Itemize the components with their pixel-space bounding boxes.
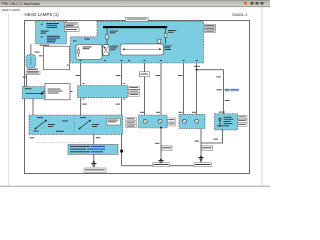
joint connector tap label	[217, 88, 240, 92]
svg-text:SD801-1: SD801-1	[232, 12, 247, 17]
ground distribution callout	[68, 145, 118, 155]
head lamp relay (small)	[103, 45, 119, 56]
fuse drop right (head lamp hi)	[158, 28, 177, 44]
auto light module box	[22, 87, 46, 99]
ground G05 label	[84, 168, 106, 172]
wire SJB to headlamp RH low	[178, 63, 183, 114]
bus bar	[103, 26, 167, 28]
SJB bottom pin specks	[80, 59, 198, 62]
wire cluster to switch pin2	[116, 98, 122, 115]
node E11 label	[35, 52, 40, 53]
fuse callout box (hot at all times)	[36, 22, 67, 45]
window bottom edge	[0, 185, 270, 187]
lighting switch labels right	[126, 117, 136, 127]
diagram sheet frame	[25, 21, 250, 174]
step pin specks	[73, 39, 90, 42]
wire battery to headlamp switch feed	[23, 74, 27, 86]
joint connector box	[43, 84, 73, 100]
junction box name label	[126, 17, 149, 21]
wire SJB to headlamp RH high + branch	[194, 63, 224, 114]
cluster pin number specks	[83, 83, 126, 99]
head lamp LH pin labels	[140, 112, 196, 113]
right component box	[215, 112, 238, 130]
connector text E/R-A	[39, 45, 49, 57]
wire label 0.3B left	[30, 137, 35, 138]
svg-text:HEAD LAMPS: HEAD LAMPS	[2, 8, 21, 12]
wire fusebox to battery	[30, 44, 32, 55]
battery	[26, 55, 36, 68]
right component labels	[238, 115, 248, 126]
window buttons	[244, 2, 264, 5]
smart junction box (dashed)	[71, 21, 204, 63]
legend white box	[44, 46, 70, 69]
head lamp LH name labels	[168, 118, 176, 126]
wire RH to ground	[195, 128, 213, 165]
ground tap wire from switch pin	[120, 134, 123, 165]
relay coil right text	[165, 46, 172, 51]
ground G17	[158, 161, 163, 164]
wire branch to right component	[216, 70, 229, 115]
wire right component drop	[201, 129, 223, 143]
ground run horizontal	[122, 165, 201, 167]
SJB connector labels I/P	[204, 24, 216, 32]
head lamp LH	[139, 115, 168, 128]
ground G17 label	[153, 163, 170, 167]
dotted option line under switch	[36, 142, 89, 144]
instrument cluster box	[78, 86, 128, 98]
ground right	[198, 158, 203, 161]
head lamp RH	[179, 114, 205, 128]
svg-text:PRE 1.9B-2.7) / head lamps: PRE 1.9B-2.7) / head lamps	[2, 2, 41, 6]
cluster connector labels	[129, 86, 140, 96]
wire autolight to switch	[32, 99, 34, 115]
fuse label 7.5A	[65, 28, 80, 32]
wire switch to ground G05	[93, 134, 101, 162]
ground right label	[194, 163, 212, 167]
wire SJB to cluster pin2	[116, 63, 122, 86]
lighting switch box	[29, 115, 123, 134]
wire SJB to headlamp LH low	[139, 63, 144, 115]
wire LH to ground G17	[155, 127, 172, 161]
fuse drop left (head lamp lo)	[106, 28, 118, 44]
wire SJB to headlamp LH high	[156, 63, 161, 115]
ground G05	[91, 163, 96, 166]
wire cluster to switch pin1	[81, 98, 87, 115]
battery label boxes	[26, 68, 40, 74]
inline connector on LH low wire	[139, 72, 149, 77]
relay contacts (wide)	[120, 44, 163, 55]
svg-text:HEAD LAMPS (1): HEAD LAMPS (1)	[25, 12, 60, 17]
window title bar	[0, 0, 270, 7]
wire SJB to cluster pin1	[75, 63, 80, 86]
right panel divider	[261, 7, 263, 186]
left panel divider	[8, 14, 10, 187]
fuse label HEAD LAMP 15A	[65, 23, 79, 27]
breaker in lower-left of SJB	[76, 44, 102, 59]
pin 1 speck	[67, 64, 70, 67]
